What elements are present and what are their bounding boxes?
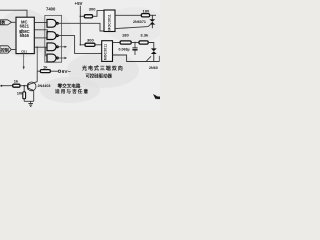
wire top-left to chip top xyxy=(0,10,27,17)
nand gate G1 xyxy=(47,19,58,27)
svg-text:控制: 控制 xyxy=(1,46,9,53)
svg-text:300: 300 xyxy=(87,37,94,42)
wire flag1 to chip xyxy=(12,21,17,23)
chip U1 MC6821 box xyxy=(16,17,34,53)
svg-text:6821: 6821 xyxy=(20,23,30,28)
wire chip out C to gate2 lower input xyxy=(34,37,47,39)
svg-text:180: 180 xyxy=(122,33,129,38)
wire G2 output to opto2 xyxy=(58,36,101,54)
optocoupler U3 MOC3011 box xyxy=(102,41,113,62)
node snubber xyxy=(134,42,136,44)
wire R300a to opto1 xyxy=(93,11,104,17)
svg-text:6846: 6846 xyxy=(20,33,30,38)
nand gate G2 xyxy=(47,32,58,40)
wire to 1k base2 xyxy=(1,85,12,87)
svg-text:MOC3011: MOC3011 xyxy=(107,14,111,30)
wire collector to vertical xyxy=(36,81,38,84)
wire flag2 to chip xyxy=(11,49,16,51)
svg-text:2N4403: 2N4403 xyxy=(38,84,51,88)
resistor 3.3k xyxy=(139,41,148,44)
svg-text:6V∼: 6V∼ xyxy=(62,69,72,74)
resistor 10k vertical xyxy=(23,86,25,92)
wire G3 output arrow xyxy=(58,46,67,48)
resistor 180 channel2 xyxy=(120,41,131,44)
wire triac2 gate diagonal xyxy=(146,56,151,61)
wire right edge stub xyxy=(158,56,160,62)
svg-text:2N60: 2N60 xyxy=(149,66,158,70)
svg-text:3.3k: 3.3k xyxy=(140,33,149,38)
7400 outline box xyxy=(45,15,62,62)
wire R300b to opto2 xyxy=(95,44,102,46)
wire R180a to right xyxy=(150,14,156,16)
wire opto2 bottom out to triac2 gate xyxy=(113,55,160,62)
wire 1k to base xyxy=(20,85,27,87)
resistor 180 channel1 xyxy=(141,14,149,17)
wire G1 output to opto1 xyxy=(58,23,104,31)
svg-text:可控硅驱动器: 可控硅驱动器 xyxy=(86,72,113,79)
nand gate G3 xyxy=(47,43,58,51)
wire chip out B dogleg to gate2 xyxy=(34,30,47,34)
wire R180b to R3.3k xyxy=(131,42,139,44)
wire G4 output arrow xyxy=(58,57,67,59)
resistor 1k base xyxy=(40,70,50,73)
transistor Q3 2N4403 xyxy=(27,82,36,91)
svg-text:CB1: CB1 xyxy=(21,50,27,54)
optocoupler U2 MOC3011 box xyxy=(104,10,115,32)
flag control bus xyxy=(0,46,11,53)
wire opto2 top out to R180b xyxy=(113,42,121,44)
wire collector down xyxy=(36,71,38,82)
svg-text:MOC3011: MOC3011 xyxy=(104,44,108,60)
svg-text:1k: 1k xyxy=(14,79,19,84)
svg-text:180: 180 xyxy=(143,8,150,13)
wire 1k to terminal xyxy=(50,70,58,72)
ground xyxy=(28,101,33,106)
wire rail to R300b xyxy=(80,44,85,46)
wire bottom rail xyxy=(24,100,34,102)
+5V rail vertical xyxy=(79,6,81,45)
wire to R300a xyxy=(80,15,84,17)
resistor 300 channel1 xyxy=(84,15,92,18)
svg-text:适用与否任意: 适用与否任意 xyxy=(55,88,89,95)
terminal left AC xyxy=(0,85,2,87)
terminal 6V xyxy=(58,70,60,72)
triac Q2 2N6071 xyxy=(151,48,157,61)
svg-text:+5V: +5V xyxy=(75,1,83,6)
svg-text:1k: 1k xyxy=(43,65,48,70)
svg-text:2N6071: 2N6071 xyxy=(133,20,146,24)
load arrow bottom right xyxy=(153,94,160,99)
svg-text:0.068µ: 0.068µ xyxy=(119,48,130,52)
svg-text:数: 数 xyxy=(0,19,5,25)
nand gate G4 xyxy=(47,54,58,62)
wire chip out A to gate1 xyxy=(34,22,47,24)
chip U1 text xyxy=(19,19,30,38)
triac Q1 2N6071 xyxy=(149,15,155,28)
node base junction xyxy=(23,85,25,87)
wire chip bottom arrow xyxy=(23,54,25,70)
wire dogleg to gate4 xyxy=(46,47,47,56)
wire 3.3k to triac2 xyxy=(148,43,154,49)
resistor 1k input xyxy=(13,84,20,87)
wire opto1 out top to R180a xyxy=(115,14,141,16)
node rail channel2 xyxy=(80,44,82,46)
svg-text:7400: 7400 xyxy=(46,6,56,11)
svg-text:300: 300 xyxy=(89,7,96,12)
wire emitter down xyxy=(33,91,35,102)
zero cross vertical from out D xyxy=(36,46,38,48)
capacitor C1 0.068u xyxy=(132,43,137,56)
svg-text:10k: 10k xyxy=(17,91,24,96)
flag data bus xyxy=(1,20,12,25)
wire chip out D zero-cross line xyxy=(34,46,47,48)
resistor 300 channel2 xyxy=(85,43,95,46)
svg-text:光电式三端双向: 光电式三端双向 xyxy=(81,65,124,72)
wire 1k left to vertical xyxy=(37,70,40,72)
wire opto1 out bottom to triac1 gate xyxy=(115,25,150,29)
node +5V branch xyxy=(80,15,82,17)
